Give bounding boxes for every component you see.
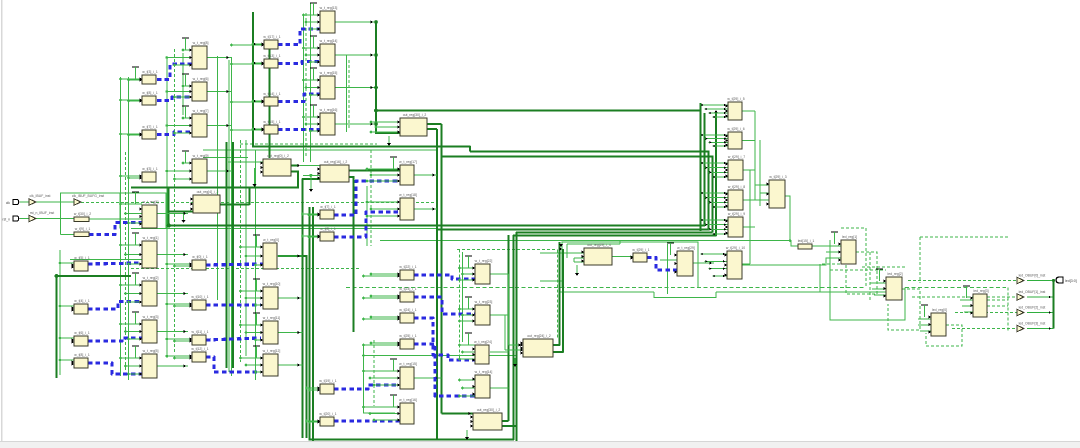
svg-text:w_t[3]_i_1: w_t[3]_i_1 xyxy=(142,70,158,74)
svg-text:led_OBUF[0]_inst: led_OBUF[0]_inst xyxy=(1019,274,1046,278)
svg-text:w_t[0]_i_1: w_t[0]_i_1 xyxy=(192,255,208,259)
svg-text:out_reg[4]_i_2: out_reg[4]_i_2 xyxy=(197,190,219,194)
svg-text:led_reg[2]: led_reg[2] xyxy=(887,272,902,276)
svg-text:out_reg[24]_i_2: out_reg[24]_i_2 xyxy=(527,334,551,338)
svg-text:out_reg[29]_i_4: out_reg[29]_i_4 xyxy=(587,243,611,247)
svg-text:w_t[29]_i_7: w_t[29]_i_7 xyxy=(728,155,745,159)
svg-text:w_t[29]_i_1: w_t[29]_i_1 xyxy=(632,248,649,252)
svg-text:led[15]_i_1: led[15]_i_1 xyxy=(798,239,815,243)
svg-text:w_t[29]_i_8: w_t[29]_i_8 xyxy=(728,185,745,189)
svg-text:w_t_reg[2]: w_t_reg[2] xyxy=(143,276,159,280)
svg-text:w_t_reg[14]: w_t_reg[14] xyxy=(475,370,493,374)
svg-text:w_t[10]_i_1: w_t[10]_i_1 xyxy=(191,295,208,299)
svg-text:w_t[20]_i_1: w_t[20]_i_1 xyxy=(319,412,336,416)
svg-text:w_t_reg[1]: w_t_reg[1] xyxy=(143,236,159,240)
svg-text:w_t[7]_i_1: w_t[7]_i_1 xyxy=(142,125,158,129)
svg-text:w_t[15]_i_1: w_t[15]_i_1 xyxy=(263,120,280,124)
svg-text:out_reg[30]_i_2: out_reg[30]_i_2 xyxy=(403,113,427,117)
svg-text:w_t_reg[5]: w_t_reg[5] xyxy=(143,349,159,353)
svg-text:w_t[29]_i_9: w_t[29]_i_9 xyxy=(728,212,745,216)
svg-text:w_t_reg[9]: w_t_reg[9] xyxy=(193,154,209,158)
svg-text:w_t_reg[7]: w_t_reg[7] xyxy=(193,109,209,113)
svg-text:out_reg[0]_i_2: out_reg[0]_i_2 xyxy=(267,154,289,158)
svg-text:w_t_reg[23]: w_t_reg[23] xyxy=(475,300,493,304)
svg-text:w_t_reg[16]: w_t_reg[16] xyxy=(320,108,338,112)
svg-text:w_t_reg[11]: w_t_reg[11] xyxy=(263,316,281,320)
svg-text:w_t_reg[15]: w_t_reg[15] xyxy=(399,362,417,366)
svg-text:out_reg[16]_i_2: out_reg[16]_i_2 xyxy=(324,160,348,164)
svg-text:w_t[13]_i_1: w_t[13]_i_1 xyxy=(263,54,280,58)
svg-text:w_t_reg[24]: w_t_reg[24] xyxy=(474,340,492,344)
svg-text:w_t[25]_i_1: w_t[25]_i_1 xyxy=(399,334,416,338)
svg-text:w_t_reg[16]: w_t_reg[16] xyxy=(399,398,417,402)
svg-text:w_t[29]_i_6: w_t[29]_i_6 xyxy=(727,127,744,131)
svg-text:w_t[5]_i_1: w_t[5]_i_1 xyxy=(74,256,90,260)
svg-text:w_t_reg[6]: w_t_reg[6] xyxy=(193,77,209,81)
svg-text:w_t_reg[12]: w_t_reg[12] xyxy=(263,349,281,353)
svg-text:w_t[29]_i_3: w_t[29]_i_3 xyxy=(769,175,786,179)
svg-text:led_reg[0]: led_reg[0] xyxy=(932,308,947,312)
svg-text:clk_IBUF_inst: clk_IBUF_inst xyxy=(30,194,51,198)
svg-text:led_reg[3]: led_reg[3] xyxy=(973,289,988,293)
svg-text:w_t_reg[18]: w_t_reg[18] xyxy=(399,193,417,197)
svg-text:w_t_reg[0]: w_t_reg[0] xyxy=(263,238,279,242)
svg-text:w_t_reg[13]: w_t_reg[13] xyxy=(320,6,338,10)
svg-text:w_t[9]_i_1: w_t[9]_i_1 xyxy=(75,227,91,231)
svg-text:w_t_reg[14]: w_t_reg[14] xyxy=(320,39,338,43)
svg-text:w_t[24]_i_1: w_t[24]_i_1 xyxy=(399,308,416,312)
svg-text:w_t_reg[15]: w_t_reg[15] xyxy=(320,71,338,75)
svg-text:led[3:0]: led[3:0] xyxy=(1065,279,1077,283)
svg-text:w_t_reg[22]: w_t_reg[22] xyxy=(475,259,493,263)
svg-text:w_t_reg[10]: w_t_reg[10] xyxy=(263,282,281,286)
svg-text:w_t_reg[4]: w_t_reg[4] xyxy=(143,200,159,204)
svg-text:w_t[11]_i_1: w_t[11]_i_1 xyxy=(191,330,208,334)
svg-text:rst_n: rst_n xyxy=(2,218,10,222)
svg-text:w_t[8]_i_1: w_t[8]_i_1 xyxy=(74,353,90,357)
svg-text:w_t[30]_i_2: w_t[30]_i_2 xyxy=(74,212,91,216)
svg-text:w_t[14]_i_1: w_t[14]_i_1 xyxy=(263,92,280,96)
svg-text:led_reg[1]: led_reg[1] xyxy=(842,235,857,239)
svg-text:led_OBUF[3]_inst: led_OBUF[3]_inst xyxy=(1019,322,1046,326)
svg-text:w_t[8]_i_1: w_t[8]_i_1 xyxy=(320,227,336,231)
svg-text:w_t[7]_i_1: w_t[7]_i_1 xyxy=(320,205,336,209)
svg-text:w_t_reg[8]: w_t_reg[8] xyxy=(193,41,209,45)
svg-text:led_OBUF[2]_inst: led_OBUF[2]_inst xyxy=(1019,306,1046,310)
svg-text:w_t[8]_i_1: w_t[8]_i_1 xyxy=(142,91,158,95)
svg-text:w_t[12]_i_1: w_t[12]_i_1 xyxy=(191,347,208,351)
svg-text:w_t[23]_i_1: w_t[23]_i_1 xyxy=(399,287,416,291)
svg-text:w_t[17]_i_1: w_t[17]_i_1 xyxy=(263,35,280,39)
svg-text:out_reg[30]_i_2: out_reg[30]_i_2 xyxy=(477,408,501,412)
svg-text:w_t_reg[3]: w_t_reg[3] xyxy=(143,315,159,319)
svg-text:w_t[3]_i_1: w_t[3]_i_1 xyxy=(142,167,158,171)
svg-text:w_t[29]_i_10: w_t[29]_i_10 xyxy=(726,246,745,250)
svg-text:w_t[6]_i_1: w_t[6]_i_1 xyxy=(74,331,90,335)
svg-text:w_t_reg[29]: w_t_reg[29] xyxy=(677,246,695,250)
svg-text:led_OBUF[1]_inst: led_OBUF[1]_inst xyxy=(1019,290,1046,294)
svg-text:w_t[19]_i_1: w_t[19]_i_1 xyxy=(319,379,336,383)
svg-text:w_t_reg[17]: w_t_reg[17] xyxy=(399,160,417,164)
svg-text:w_t[4]_i_1: w_t[4]_i_1 xyxy=(74,299,90,303)
svg-text:clk: clk xyxy=(6,201,10,205)
svg-text:clk_IBUF_BUFG_inst: clk_IBUF_BUFG_inst xyxy=(72,194,104,198)
svg-text:w_t[29]_i_5: w_t[29]_i_5 xyxy=(727,97,744,101)
svg-text:w_t[22]_i_1: w_t[22]_i_1 xyxy=(399,265,416,269)
svg-text:rst_n_IBUF_inst: rst_n_IBUF_inst xyxy=(30,211,54,215)
